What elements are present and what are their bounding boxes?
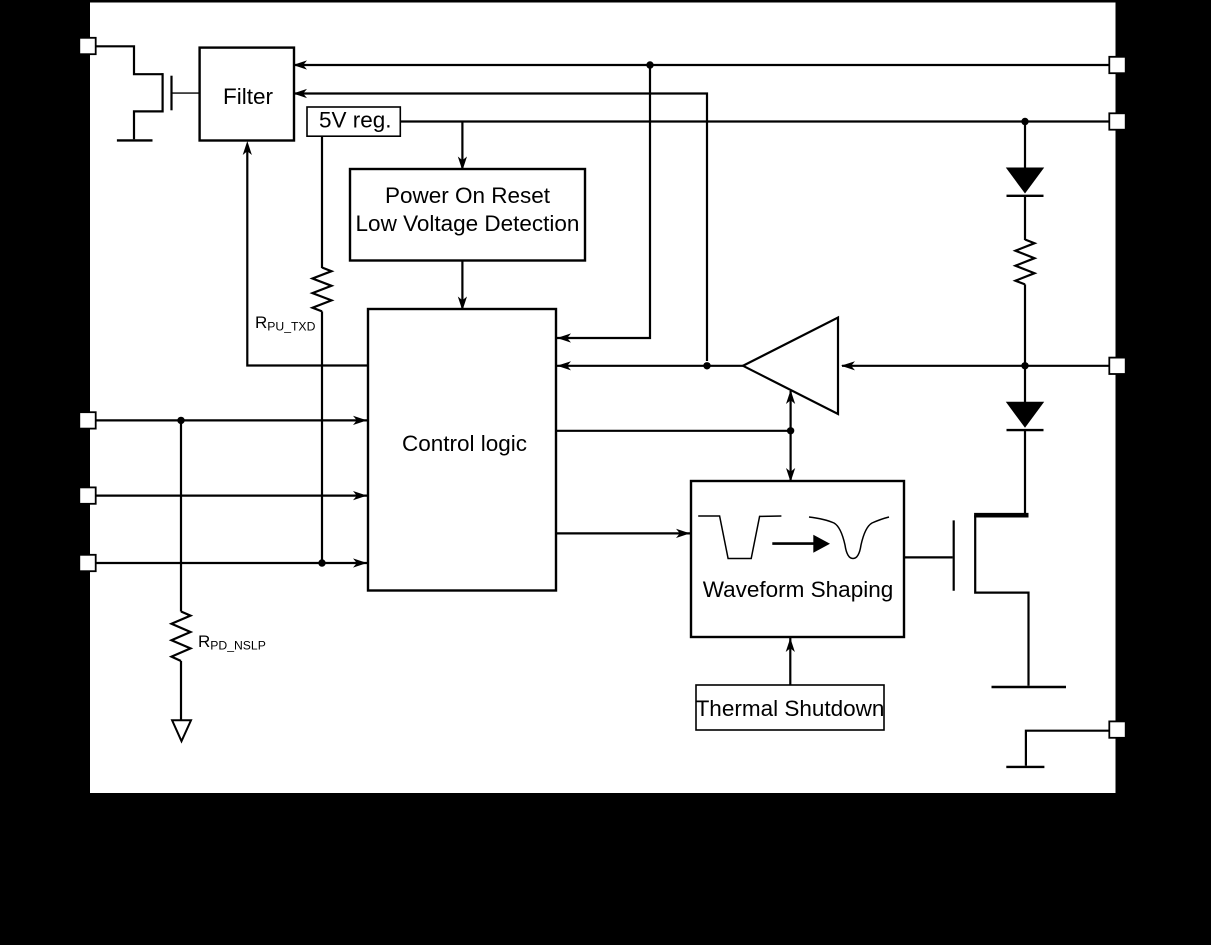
arrowhead into Control logic right edge (RX) [557, 361, 571, 370]
node J1 (junction on RXD line) [646, 61, 653, 68]
arrowhead into Control logic left edge (NSLP) [353, 416, 367, 425]
waveform glyph: trapezoid pulse [698, 516, 781, 559]
node J3 (junction on NSLP wire) [177, 417, 184, 424]
wire: junction J1 down and left into Control logic [556, 65, 650, 338]
svg-text:Low Voltage Detection: Low Voltage Detection [356, 211, 580, 236]
wire: D2 down to output MOSFET drain [1024, 430, 1026, 514]
diode D2 (reverse protection) [1006, 402, 1044, 428]
resistor R pull-up (LIN) [1016, 240, 1035, 285]
channel bar of Q1 [162, 73, 164, 112]
arrowhead up into Waveform Shaping bottom [786, 638, 795, 652]
gate bar of Q2 [953, 520, 955, 590]
block: Power On Reset / Low Voltage Detection [350, 169, 585, 261]
arrowhead into Waveform Shaping left edge [676, 529, 690, 538]
ground arrow (open triangle) below RPD_NSLP [172, 720, 191, 741]
arrowhead into Control logic left edge (TXD) [353, 558, 367, 567]
wire: arrow up to receiver underside [789, 391, 791, 431]
svg-text:Waveform Shaping: Waveform Shaping [703, 577, 894, 602]
pin GND (right bottom) [1109, 721, 1125, 737]
block: 5V regulator [307, 107, 400, 136]
node J4 (junction of RPU_TXD on TXD wire) [318, 559, 325, 566]
block: Control logic [368, 309, 556, 591]
pin LIN (right) [1109, 358, 1125, 374]
wire: POR to Control logic [461, 261, 463, 310]
wire: GND pin to ground [1026, 731, 1110, 766]
svg-text:Power On Reset: Power On Reset [385, 183, 551, 208]
wire: net VSUP 5V line (5V reg to right pin) [400, 120, 1110, 122]
block: Filter [200, 48, 294, 141]
wire: pin NSLP to Control logic [96, 419, 368, 421]
waveform glyph: shaped smooth pulse [809, 517, 889, 559]
node J6 (junction on LIN line at diode chain) [1021, 362, 1028, 369]
pin WAKE (left top) [79, 38, 95, 54]
resistor RPU_TXD [313, 268, 332, 312]
resistor RPD_NSLP [172, 612, 191, 662]
wire: LIN node down to diode D2 [1024, 366, 1026, 402]
wire: pin TXD to Control logic [96, 562, 368, 564]
svg-text:Filter: Filter [223, 84, 274, 109]
wire: D1 to pull-up resistor [1024, 196, 1026, 240]
wire: pull-up resistor to LIN node [1024, 284, 1026, 365]
wire: arrow down to Waveform Shaping top [789, 431, 791, 481]
transistor Q2 (LIN output driver MOSFET) [954, 515, 1029, 686]
pin RXD (right top) [1109, 57, 1125, 73]
arrowhead up into Filter bottom [243, 141, 252, 155]
wire: Waveform Shaping to Q2 gate [904, 556, 953, 558]
channel and source path of Q2 [975, 515, 1028, 686]
gate wire of Q1 to Filter [172, 92, 200, 94]
drain bar (thick) of Q2 [974, 513, 1028, 518]
wire: pin WAKE to transistor Q1 drain [96, 46, 163, 74]
wire: Control logic to TX path node [556, 430, 791, 432]
arrowhead up at receiver underside [786, 390, 795, 404]
wire: NSLP node down to resistor RPD_NSLP [180, 420, 182, 611]
svg-text:Thermal Shutdown: Thermal Shutdown [696, 696, 885, 721]
block: Thermal Shutdown [696, 685, 884, 730]
wire: Thermal Shutdown to Waveform Shaping [789, 638, 791, 685]
ground (Q2 source) [992, 686, 1067, 688]
diode D1 (series with pull-up resistor) [1006, 168, 1044, 194]
wire: Control logic to Waveform Shaping [556, 532, 690, 534]
pin NSLP (left) [79, 412, 95, 428]
IC body (white diagram area) [90, 3, 1116, 794]
wire: receiver output to Control logic [556, 365, 743, 367]
arrowhead into Filter right edge (lower) [293, 89, 307, 98]
wire: pin EN to Control logic [96, 495, 368, 497]
block: Waveform Shaping [691, 481, 904, 637]
arrowhead down into Waveform Shaping top [786, 468, 795, 482]
wire: 5V reg down to resistor RPU_TXD [321, 136, 323, 268]
arrowhead into Filter right edge (upper) [293, 60, 307, 69]
source path of Q1 [134, 111, 163, 139]
pin EN (left) [79, 487, 95, 503]
waveform glyph: arrow [772, 542, 814, 545]
wire: resistor RPU_TXD down to TXD node [321, 311, 323, 563]
arrowhead into receiver right edge [841, 361, 855, 370]
ground (GND pin) [1006, 766, 1044, 768]
arrowhead into POR box top [458, 157, 467, 171]
transistor Q1 (wake input MOSFET) [134, 73, 200, 139]
wire: Filter output down and right into Control logic [247, 147, 368, 366]
wire: second filter input line from receiver output node [294, 94, 707, 362]
node J7 (junction on TX path) [787, 427, 794, 434]
wire: net RXD line (right pin to Filter) [294, 64, 1110, 66]
gate bar of Q1 [170, 76, 172, 111]
svg-text:5V reg.: 5V reg. [319, 108, 392, 133]
pin VSUP (right) [1109, 113, 1125, 129]
wire: VSUP branch down to Power On Reset [461, 122, 463, 170]
op-amp U1 receiver comparator triangle [743, 318, 838, 415]
node J2 (junction on VSUP line above diode chain) [1021, 118, 1028, 125]
wire: resistor RPD_NSLP to ground arrow [180, 661, 182, 720]
arrowhead into Control logic right edge (y=338) [557, 333, 571, 342]
ground (Q1 source) [117, 139, 153, 141]
wire: VSUP node down to diode D1 [1024, 122, 1026, 169]
pin TXD (left) [79, 555, 95, 571]
arrowhead into Control logic left edge (EN) [353, 491, 367, 500]
svg-text:Control logic: Control logic [402, 431, 527, 456]
wire: LIN line from right pin to receiver input [842, 365, 1110, 367]
node J5 (junction of filter line on receiver output) [703, 362, 710, 369]
arrowhead into Control logic top [458, 297, 467, 311]
